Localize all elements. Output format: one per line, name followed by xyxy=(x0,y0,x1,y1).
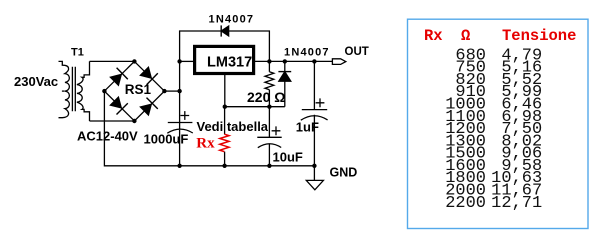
svg-text:10uF: 10uF xyxy=(273,150,303,165)
svg-text:LM317: LM317 xyxy=(207,54,252,70)
svg-text:T1: T1 xyxy=(71,47,84,59)
svg-text:OUT: OUT xyxy=(345,46,369,58)
svg-text:Rx: Rx xyxy=(424,27,443,45)
svg-text:1uF: 1uF xyxy=(296,120,319,135)
svg-text:Tensione: Tensione xyxy=(502,27,576,45)
svg-text:Ω: Ω xyxy=(461,27,470,45)
svg-text:220 Ω: 220 Ω xyxy=(247,89,285,105)
svg-text:230Vac: 230Vac xyxy=(14,74,58,89)
svg-text:1N4007: 1N4007 xyxy=(209,13,255,25)
svg-text:Rx: Rx xyxy=(196,136,215,152)
svg-text:1N4007: 1N4007 xyxy=(284,46,330,58)
svg-text:Vedi tabella: Vedi tabella xyxy=(197,119,269,134)
svg-text:AC12-40V: AC12-40V xyxy=(77,128,138,143)
svg-text:RS1: RS1 xyxy=(125,82,152,97)
svg-text:12,71: 12,71 xyxy=(491,194,542,213)
svg-text:1000uF: 1000uF xyxy=(144,132,189,147)
svg-text:GND: GND xyxy=(330,166,358,180)
svg-text:2200: 2200 xyxy=(445,194,486,213)
